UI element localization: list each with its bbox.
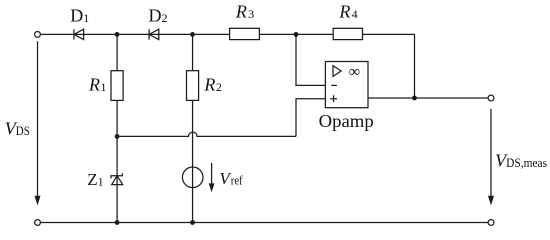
svg-text:R4: R4 (338, 1, 357, 21)
svg-text:Z1: Z1 (87, 170, 103, 189)
svg-text:VDS: VDS (5, 119, 30, 139)
svg-text:D2: D2 (149, 6, 168, 26)
svg-text:VDS,meas: VDS,meas (495, 150, 547, 170)
svg-text:R3: R3 (235, 1, 254, 21)
svg-text:R2: R2 (203, 75, 222, 95)
svg-text:D1: D1 (70, 6, 89, 26)
svg-text:Vref: Vref (219, 169, 243, 188)
svg-text:∞: ∞ (349, 63, 360, 80)
svg-text:Opamp: Opamp (319, 111, 374, 131)
svg-text:R1: R1 (88, 75, 107, 95)
